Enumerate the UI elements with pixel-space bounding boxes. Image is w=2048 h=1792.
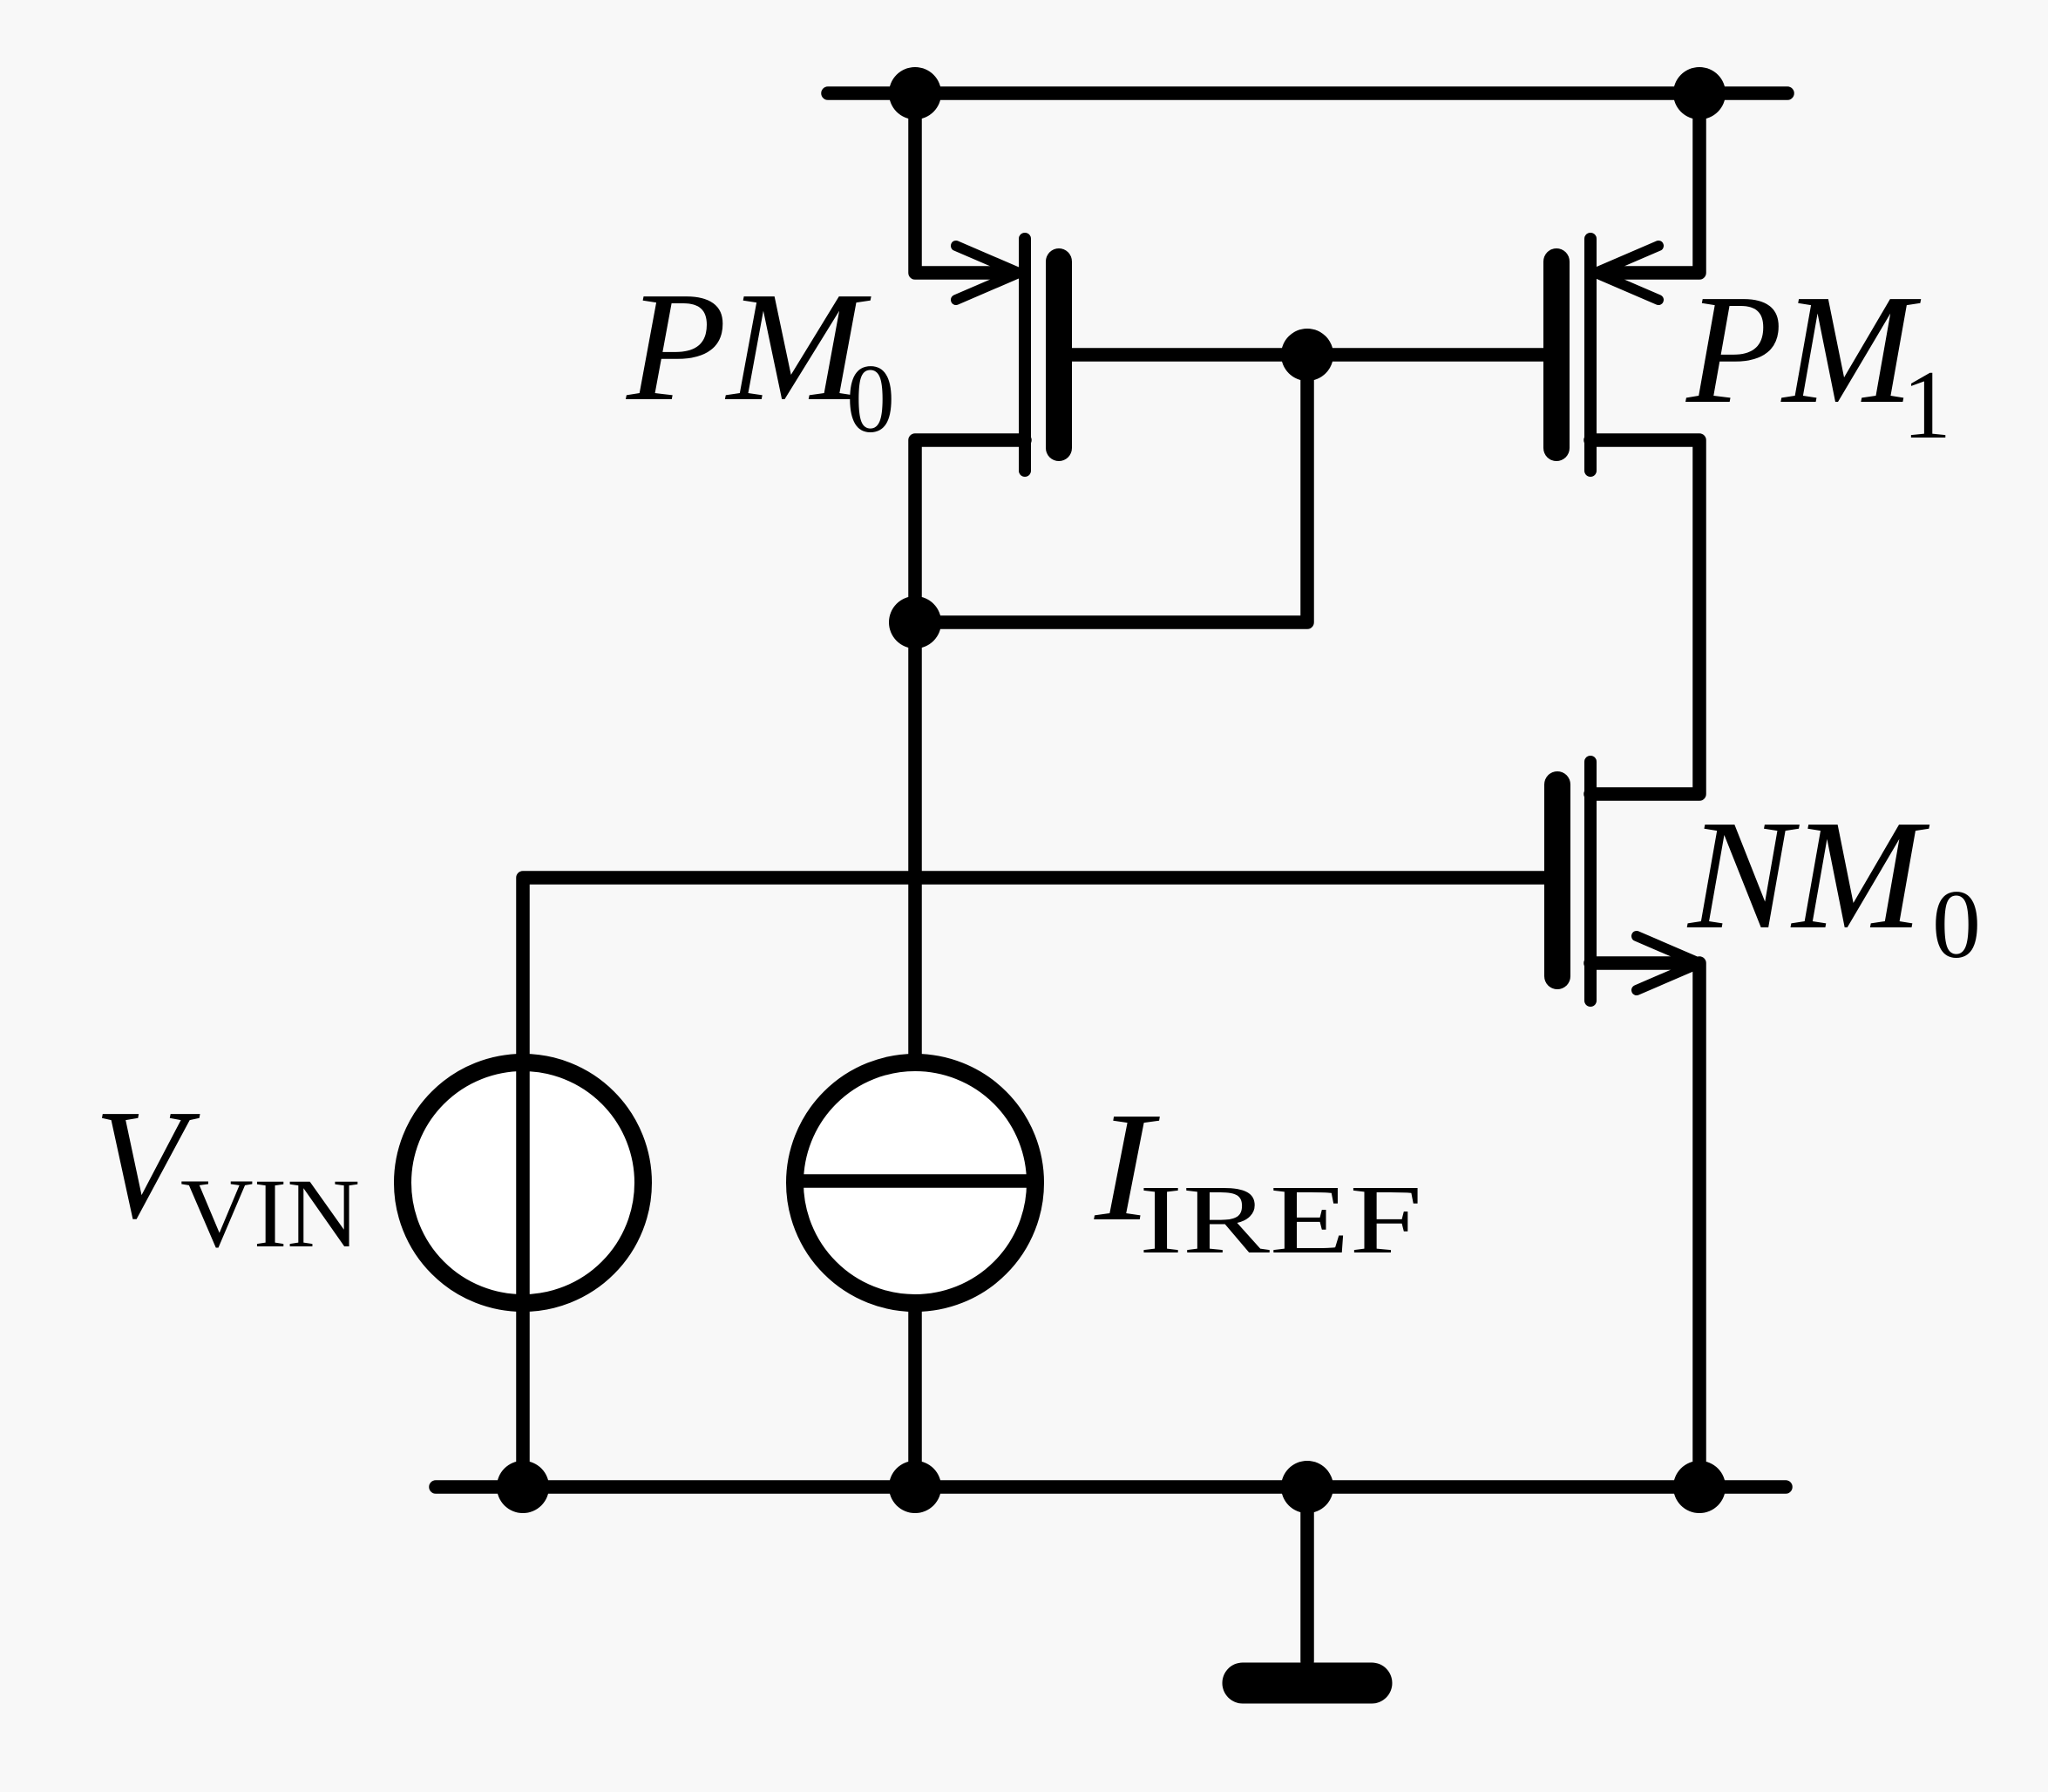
node dot VDD-PM1 xyxy=(1673,67,1726,119)
node dot rail-ground xyxy=(1281,1461,1333,1513)
wire ground bottom rail xyxy=(436,1480,1786,1494)
voltage source VVIN circle xyxy=(403,1062,643,1303)
svg-text:NM: NM xyxy=(1686,788,1930,961)
transistor PM0 source arrow xyxy=(956,246,1019,300)
svg-text:PM: PM xyxy=(1685,262,1922,436)
wire NM0 gate and VIN source xyxy=(523,878,1557,1487)
wire gate-to-drain feedback xyxy=(915,355,1307,622)
transistor PM0 channel line xyxy=(1019,239,1031,471)
wire PM1 drain to NM0 drain xyxy=(1590,440,1699,794)
wire NM0 source to ground rail xyxy=(1692,963,1706,1487)
wire IREF bottom lead xyxy=(908,1302,922,1487)
wire PM0 drain down to IREF xyxy=(915,440,1025,1063)
svg-text:VIN: VIN xyxy=(180,1159,360,1268)
transistor PM0 gate bar xyxy=(1046,261,1072,448)
node dot rail-VVIN xyxy=(497,1461,549,1513)
wire PM1 source lead xyxy=(1602,93,1699,273)
transistor PM1 gate bar xyxy=(1543,261,1570,448)
transistor PM1 channel line xyxy=(1584,239,1597,471)
svg-text:0: 0 xyxy=(846,345,895,453)
transistor NM0 source arrow xyxy=(1637,936,1699,990)
wire VDD top rail xyxy=(828,86,1787,100)
node dot PM0 drain xyxy=(889,596,941,648)
voltage source VVIN through line xyxy=(516,1062,530,1303)
current source IREF bar xyxy=(797,1174,1033,1188)
node dot VDD-PM0 xyxy=(889,67,941,119)
ground stub wire xyxy=(1300,1487,1314,1661)
svg-text:PM: PM xyxy=(626,260,872,433)
svg-text:1: 1 xyxy=(1902,351,1951,459)
transistor NM0 channel line xyxy=(1584,762,1597,1001)
ground symbol bar xyxy=(1243,1663,1372,1704)
current source IREF circle xyxy=(795,1062,1035,1303)
node dot rail-IREF xyxy=(889,1461,941,1513)
svg-text:0: 0 xyxy=(1932,871,1981,979)
transistor NM0 gate bar xyxy=(1544,784,1570,976)
wire NM0 source lead xyxy=(1590,956,1689,970)
node dot gate net xyxy=(1281,329,1333,381)
transistor PM1 source arrow xyxy=(1596,246,1658,300)
node dot rail-NM0 xyxy=(1673,1461,1726,1513)
wire PM0 source lead xyxy=(915,93,1013,273)
svg-text:IREF: IREF xyxy=(1139,1165,1422,1274)
wire gate net PM0-PM1 xyxy=(1059,348,1556,362)
